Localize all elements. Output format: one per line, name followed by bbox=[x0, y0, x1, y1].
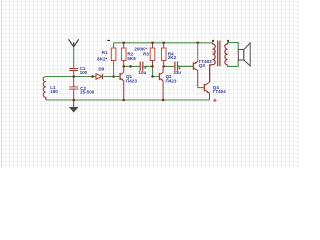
transistor Q1 (PNP) bbox=[120, 66, 137, 100]
wire bottom positive rail bbox=[46, 99, 210, 101]
svg-text:2K2: 2K2 bbox=[168, 55, 177, 60]
inductor L1 bbox=[43, 77, 58, 101]
wire top negative rail bbox=[114, 42, 213, 44]
transformer T1 primary bbox=[210, 40, 216, 82]
node dot rail R4 bbox=[162, 42, 165, 45]
transformer T1 core bbox=[218, 41, 220, 67]
left window edge line bbox=[1, 0, 3, 168]
svg-text:25-500: 25-500 bbox=[80, 89, 95, 94]
wire R3 node to Q2 base bbox=[153, 66, 160, 76]
wire node row Y-Q3 bbox=[164, 65, 194, 67]
resistor R1 bbox=[97, 43, 116, 77]
svg-text:R1: R1 bbox=[102, 50, 108, 55]
wire secondary to speaker top bbox=[228, 43, 239, 50]
node dot rail R2 bbox=[122, 42, 125, 45]
svg-text:D9: D9 bbox=[98, 66, 104, 71]
svg-text:П423: П423 bbox=[126, 78, 137, 83]
wire Q3 base bbox=[178, 65, 193, 67]
ground bbox=[69, 100, 79, 113]
battery plus mark bbox=[213, 99, 216, 102]
node dot X (R3/Q2 base) bbox=[151, 65, 154, 68]
svg-text:5K6: 5K6 bbox=[127, 56, 136, 61]
resistor R2 bbox=[121, 43, 136, 67]
node dot tank-C1 bbox=[72, 75, 75, 78]
svg-text:П423: П423 bbox=[166, 78, 177, 83]
resistor R4 bbox=[161, 43, 176, 67]
node dot bottom rail C2/ground bbox=[72, 99, 75, 102]
wire node row W-X bbox=[124, 65, 153, 67]
node dot X2 (Q2 base corner) bbox=[151, 75, 154, 78]
speaker LS bbox=[238, 43, 250, 66]
transistor Q2 (PNP) bbox=[159, 66, 176, 100]
battery minus label bbox=[107, 40, 110, 41]
antenna bbox=[69, 39, 79, 47]
svg-text:180: 180 bbox=[50, 89, 58, 94]
transformer T1 secondary bbox=[225, 40, 229, 65]
wire secondary to speaker bottom bbox=[228, 60, 239, 66]
svg-text:8K2*: 8K2* bbox=[97, 56, 107, 61]
node dot W (R2/Q1 collector) bbox=[122, 65, 125, 68]
capacitor C1 bbox=[69, 66, 87, 76]
node dot W2 bbox=[129, 65, 132, 68]
node dot Q1 emitter rail bbox=[122, 99, 125, 102]
node dot rail R3 bbox=[151, 42, 154, 45]
svg-text:ГТ404: ГТ404 bbox=[213, 89, 226, 94]
wire antenna mast bbox=[73, 47, 75, 69]
resistor R3 (200K trimmer) bbox=[134, 43, 154, 67]
svg-text:100: 100 bbox=[80, 70, 88, 75]
svg-text:10u: 10u bbox=[138, 70, 146, 75]
node dot rail Q3 bbox=[196, 42, 199, 45]
wire tank/base row bbox=[46, 76, 120, 78]
diode D9 bbox=[96, 66, 105, 79]
svg-text:Q3: Q3 bbox=[199, 63, 206, 68]
node dot tank mid bbox=[91, 75, 94, 78]
svg-text:N: N bbox=[212, 51, 215, 55]
capacitor 33u (polarized) bbox=[173, 62, 181, 76]
svg-text:33u: 33u bbox=[173, 70, 181, 75]
transistor Q3 (GT402) bbox=[193, 43, 212, 88]
node dot Q2 emitter rail bbox=[162, 99, 165, 102]
transistor Q4 (GT404 NPN) bbox=[204, 65, 226, 100]
svg-text:R3: R3 bbox=[143, 52, 149, 57]
node dot Q1 base / R1 bbox=[112, 75, 115, 78]
capacitor 10u (polarized) bbox=[138, 62, 146, 76]
svg-text:1: 1 bbox=[227, 50, 229, 54]
wire Q3 collector to Q4 base bbox=[198, 87, 205, 89]
node dot Y (R4/Q2 collector) bbox=[162, 65, 165, 68]
capacitor C2 (variable 25-500) bbox=[69, 77, 95, 101]
